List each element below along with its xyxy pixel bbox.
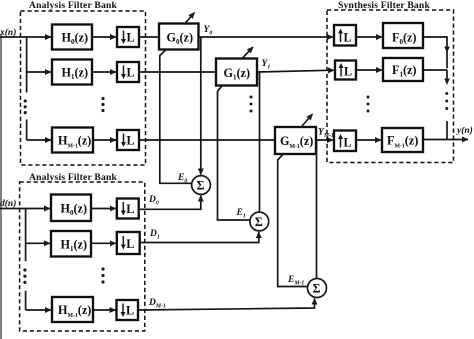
wire F1 output to sum bus: [423, 69, 447, 71]
wire row2 downsampler to GM-1: [138, 139, 275, 141]
svg-text:H1(z): H1(z): [62, 66, 89, 82]
dots upper bank left: [24, 99, 27, 114]
block HM-1(z) lower: [52, 297, 93, 322]
wire input bus vertical (lower bank): [25, 209, 27, 262]
svg-text:Σ: Σ: [197, 179, 205, 193]
block H0(z) lower: [51, 195, 91, 222]
wire row0 G0 to upsampler: [199, 36, 334, 38]
block F1(z): [383, 58, 423, 81]
scan artifact: dark line along left edge: [0, 34, 2, 339]
svg-text:L: L: [127, 66, 135, 80]
wire EM-1 feedback to GM-1: [278, 154, 308, 286]
summer sigmaM-1: [308, 279, 327, 298]
wire D1 to sum1: [140, 232, 259, 243]
block H1(z) upper: [52, 60, 92, 85]
summer sigma1: [250, 212, 269, 231]
summer sigma0: [192, 176, 211, 195]
svg-text:H0(z): H0(z): [61, 202, 88, 218]
svg-text:F1(z): F1(z): [392, 63, 416, 79]
wire HM-1 to downsampler: [93, 139, 116, 141]
svg-text:Analysis Filter Bank: Analysis Filter Bank: [29, 0, 118, 11]
dots lower bank left: [23, 268, 26, 284]
wire bus segment below F1: [446, 70, 448, 79]
svg-text:H1(z): H1(z): [61, 238, 88, 254]
wire HM-1 to downsampler (lower): [93, 309, 116, 311]
block GM-1(z): [275, 127, 316, 154]
wire branch to H1 (lower): [26, 242, 50, 244]
block downsampler L (lower row1): [117, 232, 140, 254]
wire branch to HM-1: [27, 139, 51, 141]
block H0(z) upper: [52, 25, 92, 50]
block G1(z): [216, 59, 257, 86]
wire upsampler to FM-1: [356, 139, 381, 141]
wire E1 feedback to G1: [218, 86, 251, 220]
dashed box: upper analysis bank: [21, 11, 146, 165]
wire input bus vertical (upper bank): [26, 37, 28, 93]
wire branch to H1: [27, 71, 51, 73]
wire row1 G1 to upsampler: [257, 70, 334, 72]
wire Y1 branch down to sum1: [259, 72, 261, 213]
svg-text:L: L: [344, 31, 352, 45]
wire upsampler to F1: [356, 69, 382, 71]
wire H1 to downsampler: [92, 71, 116, 73]
wire upsampler to F0: [356, 36, 382, 38]
adaptive arrow G1: [242, 47, 253, 59]
dots between G1 and GM-1: [250, 96, 253, 113]
svg-text:L: L: [127, 134, 135, 148]
block upsampler L (row2): [334, 131, 356, 152]
wire x(n) input to H0: [0, 36, 51, 38]
svg-text:H0(z): H0(z): [62, 31, 89, 47]
wire E0 feedback to G0: [160, 50, 192, 184]
dots upper bank mid: [101, 97, 104, 112]
dots on sum bus: [445, 92, 448, 110]
wire row2 GM-1 to upsampler: [316, 139, 333, 141]
wire YM-1 branch down to sumM-1: [316, 140, 318, 279]
svg-text:L: L: [344, 65, 352, 79]
svg-text:F0(z): F0(z): [392, 31, 416, 47]
block upsampler L (row0): [334, 25, 356, 46]
svg-text:L: L: [126, 304, 134, 318]
adaptive arrow GM-1: [302, 114, 313, 126]
dashed box: synthesis bank: [327, 10, 454, 163]
svg-text:Σ: Σ: [313, 282, 321, 296]
block downsampler L (lower row0): [117, 199, 139, 219]
arrowhead on bus below F0 join: [444, 47, 450, 54]
wire DM-1 to sumM-1: [138, 299, 315, 311]
svg-text:L: L: [344, 136, 352, 150]
block FM-1(z): [382, 128, 423, 152]
svg-text:G1(z): G1(z): [224, 66, 251, 82]
wire row1 downsampler to G1: [139, 71, 216, 73]
svg-text:L: L: [126, 202, 134, 216]
svg-text:Σ: Σ: [255, 215, 263, 229]
block downsampler L (lower row2): [117, 300, 139, 320]
block upsampler L (row1): [335, 61, 356, 80]
svg-text:d(n): d(n): [0, 198, 16, 209]
block G0(z): [159, 24, 199, 50]
svg-text:G0(z): G0(z): [167, 31, 194, 47]
block F0(z): [383, 23, 423, 48]
block downsampler L (upper row2): [117, 130, 139, 150]
wire row0 downsampler to G0: [139, 36, 159, 38]
dots lower bank mid: [101, 267, 104, 283]
wire H1 to downsampler (lower): [91, 242, 116, 244]
wire H0 to downsampler: [92, 36, 116, 38]
wire branch to HM-1 (lower): [26, 309, 51, 311]
wire FM-1 output to y(n): [423, 139, 468, 141]
wire H0 to downsampler (lower): [91, 208, 116, 210]
block downsampler L (upper row1): [117, 62, 139, 82]
svg-text:L: L: [126, 237, 134, 251]
dashed box: lower analysis bank: [20, 182, 145, 331]
svg-text:y(n): y(n): [456, 125, 473, 136]
wire F0 output to sum bus: [423, 37, 447, 69]
block downsampler L (upper row0): [117, 27, 139, 47]
svg-text:L: L: [127, 31, 135, 45]
wire Y0 branch down to sum0: [200, 37, 202, 175]
wire d(n) input to H0: [0, 208, 50, 210]
wire D0 to sum0: [139, 196, 201, 210]
arrowhead on bus below F1 join: [444, 79, 450, 86]
block HM-1(z) upper: [52, 128, 93, 153]
block H1(z) lower: [51, 231, 91, 257]
adaptive arrow G0: [184, 13, 195, 25]
wire bus segment joining output row: [446, 121, 448, 140]
dots synthesis mid: [367, 96, 370, 113]
